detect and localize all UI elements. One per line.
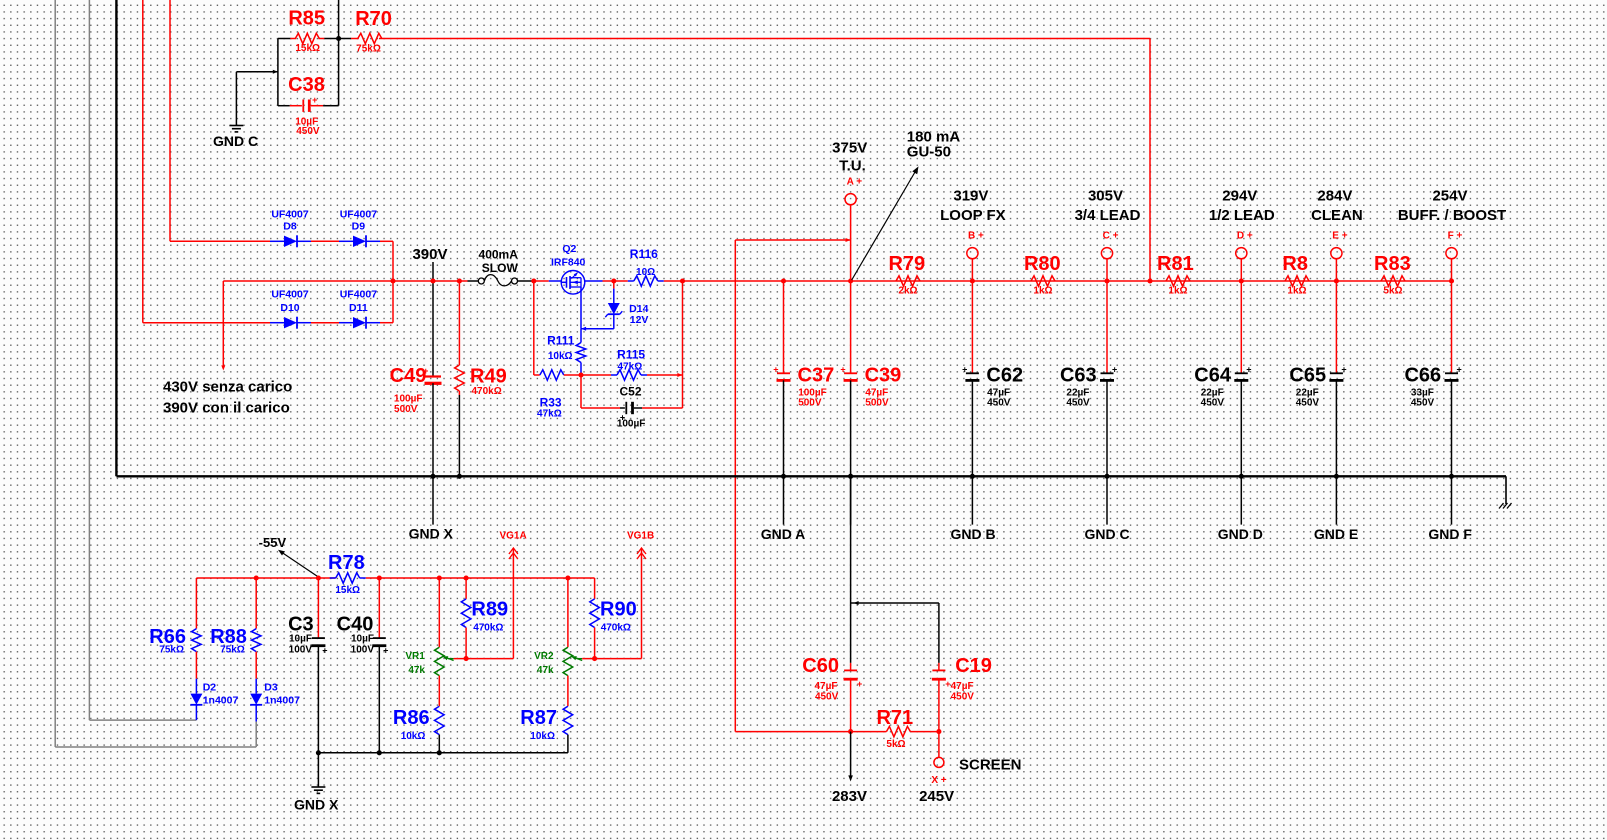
label GND A [761,526,806,542]
label IRF840 [551,256,586,268]
svg-text:47µF: 47µF [987,387,1010,398]
junction C3 on bias rail [316,575,321,580]
label 375V [832,139,867,156]
svg-text:VR2: VR2 [534,651,554,662]
svg-text:R116: R116 [630,247,658,261]
svg-text:294V: 294V [1222,187,1257,204]
wire: C49 black vertical to ground bus and GND X stub [432,383,434,524]
svg-text:R111: R111 [547,333,575,347]
svg-text:319V: 319V [953,187,988,204]
label LOOP FX [940,207,1006,224]
resistor R8 [1285,276,1309,286]
wire: red drop rail to C65 [1335,281,1337,373]
value label VR2 47k [537,665,554,676]
value label C3 100V [289,644,313,655]
svg-text:47kΩ: 47kΩ [537,409,562,420]
capacitor C64 [1234,364,1251,381]
svg-text:15kΩ: 15kΩ [335,585,360,596]
capacitor C62 [962,364,979,381]
label 294V [1222,187,1257,204]
diode D2 1n4007 [190,679,202,720]
label CLEAN [1311,207,1363,224]
label VR2 [534,651,554,662]
wire: black R87 to bottom bus corner [567,735,569,753]
value label R8 1kΩ [1287,286,1306,297]
wire: red between D8 and D9 [311,240,339,242]
annotation arrow to GU-50 [852,166,919,280]
diode D8 UF4007 [270,235,311,247]
capacitor C63 [1100,364,1117,381]
label VG1A [499,530,526,541]
junction C37 on rail [781,278,786,283]
label R90 [600,598,637,620]
svg-text:R49: R49 [470,366,507,388]
wire: red B+ vertical to rail [971,259,973,281]
svg-text:D3: D3 [264,681,278,693]
svg-text:12V: 12V [630,314,649,326]
svg-text:500V: 500V [394,404,418,415]
wire: red line from top edge to upper bridge row [169,0,171,241]
resistor R79 [896,276,920,286]
value label C62 450V [987,398,1011,409]
svg-text:245V: 245V [919,788,954,805]
svg-text:SLOW: SLOW [482,261,519,275]
label GND X (lower) [294,797,339,813]
wire: red rail Q2 to R116 [603,280,628,282]
svg-text:47µF: 47µF [815,681,838,692]
svg-text:15kΩ: 15kΩ [295,43,320,54]
junction C39 line on ground bus [848,474,853,479]
junction C40 on bias rail [377,575,382,580]
junction A+ on rail [848,278,853,283]
capacitor C19 [932,663,951,732]
value label R79 2kΩ [898,286,917,297]
label 1/2 LEAD [1209,207,1275,224]
svg-text:R78: R78 [328,552,365,574]
svg-text:283V: 283V [832,788,867,805]
wire: black C3 to bottom bus and ground [317,646,319,787]
value label C64 22µF [1201,387,1224,398]
svg-text:GU-50: GU-50 [907,144,951,161]
svg-text:100µF: 100µF [798,387,827,398]
value label R78 15kΩ [335,585,360,596]
resistor R116 [628,276,664,286]
svg-text:C3: C3 [288,613,314,635]
junction C40 line on bottom bus [377,750,382,755]
svg-text:LOOP FX: LOOP FX [940,207,1006,224]
wire: red VR1 to R86 [438,676,440,707]
value label C40 10µF [351,634,374,645]
capacitor C52 [581,402,683,423]
label 319V [953,187,988,204]
wire: red bias rail end to R90 [594,578,596,599]
label D10 [280,302,299,314]
svg-text:R71: R71 [876,707,913,729]
junction C39/C60 line on ground bus [848,474,853,479]
net VG1B riser [637,548,646,659]
svg-text:75kΩ: 75kΩ [159,644,184,655]
label 430V senza carico [163,379,292,396]
ground GND C symbol [229,126,243,132]
label UF4007 (D11) [340,289,378,301]
wire: red bridge output vertical [392,241,394,322]
wire: red between D10 and D11 [311,322,339,324]
svg-text:D14: D14 [629,303,648,315]
junction B+ on rail [970,278,975,283]
svg-text:1n4007: 1n4007 [203,694,239,706]
svg-text:D11: D11 [349,302,368,314]
svg-text:+: + [1456,364,1461,374]
junction VR2 on bias rail [565,575,570,580]
svg-text:GND X: GND X [294,797,339,813]
wire: red R89 to wiper line [465,628,467,659]
svg-text:10kΩ: 10kΩ [548,351,573,362]
capacitor C37 [773,364,790,381]
svg-text:284V: 284V [1317,187,1352,204]
wire: red from D11 to bridge output corner [380,322,393,324]
svg-text:D9: D9 [352,221,366,233]
wire: red divider line R115 to right loop corner [647,373,683,377]
label 390V con il carico [163,399,290,416]
svg-text:C63: C63 [1060,365,1097,387]
svg-text:R70: R70 [355,8,392,30]
svg-text:100µF: 100µF [617,418,646,429]
wire: red line from top edge to lower bridge row [142,0,144,323]
value label C49 100µF [394,394,423,405]
value label C49 500V [394,404,418,415]
svg-text:C52: C52 [619,385,641,399]
label -55V [259,535,287,550]
label R33 [540,396,562,410]
svg-text:R86: R86 [393,707,430,729]
label 283V [832,788,867,805]
value label C37 100µF [798,387,827,398]
svg-text:500V: 500V [798,398,822,409]
svg-text:R33: R33 [540,396,562,410]
label C63 [1060,365,1097,387]
junction C+ on rail [1104,278,1109,283]
wire: black C66 to ground bus and stub [1451,380,1453,524]
svg-text:1/2 LEAD: 1/2 LEAD [1209,207,1275,224]
svg-text:470kΩ: 470kΩ [601,622,631,633]
svg-text:UF4007: UF4007 [340,289,378,301]
label D14 [629,303,648,315]
wire: red to screen terminal [938,732,940,758]
label C19 [955,655,992,677]
label GND C [213,133,258,149]
svg-text:305V: 305V [1088,187,1123,204]
svg-text:470kΩ: 470kΩ [473,622,503,633]
svg-text:R8: R8 [1282,253,1308,275]
wire: black C37 to ground bus and stub [783,380,785,524]
label GND F [1428,526,1472,542]
label GU-50 [907,144,951,161]
junction C65 line on ground bus [1334,474,1339,479]
svg-text:C62: C62 [986,365,1023,387]
svg-text:1kΩ: 1kΩ [1033,286,1052,297]
junction R111 bottom on divider line [578,372,583,377]
label R88 [210,626,247,648]
svg-text:1kΩ: 1kΩ [1168,286,1187,297]
resistor R111 [576,329,586,375]
value label C37 500V [798,398,822,409]
wire: red divider line between R33 and R115 [570,374,611,376]
junction C19 / screen terminal on R71 line [936,729,941,734]
junction C37 line on ground bus [781,474,786,479]
label C60 [802,655,839,677]
wire: VR1 wiper line to VG1A [454,658,514,660]
junction C63 line on ground bus [1104,474,1109,479]
label 390V [412,246,447,263]
label C + [1103,231,1119,242]
svg-text:100V: 100V [289,644,313,655]
svg-text:C66: C66 [1404,365,1441,387]
junction R33 drop on rail [531,278,536,283]
resistor R88 [251,578,261,679]
junction C64 line on ground bus [1239,474,1244,479]
svg-text:10µF: 10µF [289,634,312,645]
svg-text:5kΩ: 5kΩ [1383,286,1402,297]
label D3 [264,681,278,693]
wire: R49 black vertical to ground bus [458,395,460,476]
wire: red VR2 to R87 [567,676,569,707]
label BUFF. / BOOST [1398,207,1506,224]
value label C39 500V [865,398,889,409]
svg-text:+: + [1112,364,1117,374]
junction D+ on rail [1239,278,1244,283]
wire: red rail R116 to F+ terminal (long) [664,280,1452,282]
capacitor C60 [844,663,863,732]
wire: thick black ground bus [116,476,1506,504]
value label C40 100V [351,644,375,655]
svg-text:2kΩ: 2kΩ [898,286,917,297]
label X + [931,775,946,786]
value label C63 450V [1066,398,1090,409]
wire: black stub from GND C to R85/C38 loop [236,70,278,126]
terminal E+ [1331,248,1342,259]
svg-text:+: + [840,364,845,374]
value label R33 47kΩ [537,409,562,420]
wire: red right loop vertical (rail to C52) [682,281,684,408]
svg-text:+: + [312,95,317,105]
value label R89 470kΩ [473,622,503,633]
svg-text:IRF840: IRF840 [551,256,586,268]
svg-text:C37: C37 [798,365,835,387]
label C39 [865,365,902,387]
wire: black C39 to ground bus and stub [850,380,852,524]
junction C66 line on ground bus [1449,474,1454,479]
capacitor C38 [278,95,339,112]
svg-text:R81: R81 [1157,253,1194,275]
wire: red A+ vertical to rail [850,205,852,281]
capacitor C3 [311,578,327,656]
svg-text:R87: R87 [520,707,557,729]
value label R116 10Ω [636,267,655,278]
value label R49 470kΩ [472,386,502,397]
label R111 [547,333,575,347]
label 254V [1432,187,1467,204]
value label R86 10kΩ [401,731,426,742]
wire: black 283V drop with arrow [848,732,853,782]
resistor R78 [330,573,366,583]
svg-text:450V: 450V [987,398,1011,409]
junction R88 on bias rail [254,575,259,580]
net VG1A riser [509,548,518,659]
value label R71 5kΩ [886,739,905,750]
wire: main red rail left section [223,280,467,282]
junction E+ on rail [1334,278,1339,283]
value label R66 75kΩ [159,644,184,655]
label GND B [950,526,995,542]
resistor R87 [563,706,573,734]
potentiometer VR2 47k [563,647,582,675]
value label R90 470kΩ [601,622,631,633]
label R81 [1157,253,1194,275]
svg-text:E +: E + [1332,231,1347,242]
resistor R89 [461,599,471,628]
svg-text:C19: C19 [955,655,992,677]
svg-text:GND B: GND B [950,526,995,542]
junction F+ / C66 on rail end [1449,278,1454,283]
label C62 [986,365,1023,387]
terminal D+ [1236,248,1247,259]
wire: black drop ground bus to 283V arrow (through C60) [850,476,852,663]
svg-text:UF4007: UF4007 [271,208,309,220]
resistor R83 [1381,276,1405,286]
svg-text:D10: D10 [280,302,299,314]
label D3 1n4007 [264,694,300,706]
value label R80 1kΩ [1033,286,1052,297]
label C65 [1289,365,1326,387]
value label R70 75kΩ [356,43,381,54]
svg-text:C40: C40 [337,613,374,635]
label 3/4 LEAD [1075,207,1141,224]
label C66 [1404,365,1441,387]
svg-text:47kΩ: 47kΩ [618,362,643,373]
label GND X (upper) [409,526,454,542]
svg-text:A +: A + [847,177,863,188]
svg-text:D +: D + [1237,231,1253,242]
value label C52 100µF [617,418,646,429]
wire: red drop rail to C64 [1240,281,1242,373]
transistor Q2 IRF840 (MOSFET) [549,271,603,295]
label D + [1237,231,1253,242]
wire: red E+ vertical to rail [1335,259,1337,281]
junction D14 on rail [611,278,616,283]
resistor R71 [735,726,939,736]
value label C60 450V [815,692,839,703]
label 245V [919,788,954,805]
label R115 [617,348,645,362]
label R87 [520,707,557,729]
svg-text:CLEAN: CLEAN [1311,207,1363,224]
label Q2 [562,243,576,255]
wire: red drop rail to C66 [1451,281,1453,373]
label R70 [355,8,392,30]
svg-text:+: + [962,364,967,374]
wire: gray secondary line (inner, from top edge to D2 return) [89,0,196,720]
svg-text:22µF: 22µF [1201,387,1224,398]
wire: red drop from top feed to rail [1149,39,1151,282]
value label C63 22µF [1066,387,1089,398]
capacitor C65 [1329,364,1346,381]
svg-text:10µF: 10µF [351,634,374,645]
junction right loop on rail [680,278,685,283]
resistor R80 [1031,276,1055,286]
svg-text:47µF: 47µF [951,681,974,692]
label SCREEN [959,757,1022,774]
svg-text:450V: 450V [1066,398,1090,409]
junction C49 on rail [430,278,435,283]
label T.U. [839,158,866,175]
label GND E [1314,526,1358,542]
svg-text:450V: 450V [1201,398,1225,409]
wire: red drop to R33 [533,281,535,375]
svg-text:D2: D2 [203,681,217,693]
terminal A+ [845,194,856,205]
junction R89 on bias rail [464,575,469,580]
wire: red screen feed vertical (long) [734,240,736,732]
label R8 [1282,253,1308,275]
junction C3 line on bottom bus [316,750,321,755]
capacitor C49 [423,366,441,385]
resistor R85 [290,33,324,43]
label 180 mA [907,129,961,146]
svg-text:GND C: GND C [213,133,258,149]
value label C39 47µF [865,387,888,398]
diode D3 1n4007 [250,679,262,722]
svg-text:T.U.: T.U. [839,158,866,175]
svg-text:UF4007: UF4007 [271,289,309,301]
wire: red D+ vertical to rail [1240,259,1242,281]
value label C65 450V [1296,398,1320,409]
svg-text:R79: R79 [888,253,925,275]
svg-text:10Ω: 10Ω [636,267,655,278]
resistor R66 [192,578,202,679]
value label R88 75kΩ [220,644,245,655]
label A + [847,177,863,188]
label fuse SLOW [482,261,519,275]
fuse F 400mA SLOW [468,275,536,286]
wire: blue gate node horizontal (Q2 gate to D14) [581,327,614,331]
terminal X+ (screen) [934,757,944,767]
value label VR1 47k [408,665,425,676]
label R79 [888,253,925,275]
svg-text:UF4007: UF4007 [340,208,378,220]
junction R49 line on ground bus [457,474,462,479]
junction top feed on rail [1147,278,1152,283]
wire: red bias rail [196,577,594,579]
label UF4007 (D8) [271,208,309,220]
label C40 [337,613,374,635]
svg-text:1n4007: 1n4007 [264,694,300,706]
label R89 [471,598,508,620]
resistor R49 [455,281,465,395]
resistor R70 [351,33,386,43]
svg-text:R83: R83 [1374,253,1411,275]
value label D14 12V [630,314,649,326]
label C52 [619,385,641,399]
svg-text:+: + [383,646,388,656]
resistor R81 [1166,276,1190,286]
svg-text:10kΩ: 10kΩ [530,731,555,742]
wire: gray secondary line (outer, from top edge to D3 return) [55,0,256,747]
wire: black R86 to bottom bus [438,735,440,753]
label R49 [470,366,507,388]
svg-text:+: + [322,646,327,656]
svg-text:450V: 450V [1296,398,1320,409]
svg-text:500V: 500V [865,398,889,409]
